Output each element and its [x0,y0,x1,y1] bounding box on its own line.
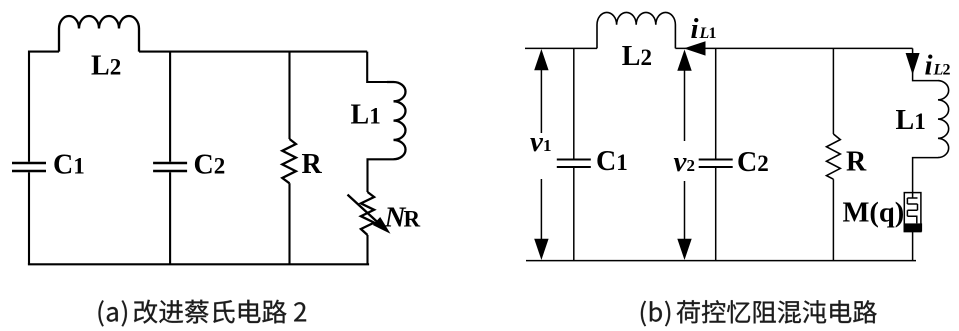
capacitor C2 (circuit a) [153,149,225,180]
wire: (a) C2 branch lower [169,172,171,264]
inductor L1 (circuit b) [896,81,949,158]
svg-text:C1: C1 [53,150,85,181]
wire: (b) right branch top with iL2 arrow [906,48,951,81]
capacitor C1 (circuit b) [557,146,628,177]
svg-text:1: 1 [709,25,717,42]
svg-text:R: R [302,149,323,180]
svg-text:i: i [691,13,699,45]
svg-text:2: 2 [943,62,951,79]
wire: (b) R branch upper [832,48,834,134]
svg-text:R: R [846,147,867,178]
node: v1 line upper with arrow [530,49,552,158]
svg-text:1: 1 [543,136,552,155]
svg-text:L1: L1 [896,105,926,136]
inductor L2 (circuit b) [597,12,675,71]
wire: (a) bottom wire [28,263,369,265]
wire: (b) C1 branch upper [573,48,575,158]
resistor R (circuit a) [282,139,322,183]
node: v1 line lower with arrow [534,179,548,260]
wire: (b) top wire left segment [525,47,597,49]
svg-text:L1: L1 [351,100,381,131]
caption (b) [641,300,877,326]
wire: (a) L1 to NR [368,159,394,192]
svg-text:2: 2 [687,156,696,175]
wire: (a) left branch lower [28,172,30,264]
wire: (b) top wire right segment [675,47,912,49]
wire: (a) right branch top corner [367,52,387,82]
inductor L1 (circuit a) [351,82,406,159]
svg-text:v: v [674,146,688,178]
svg-text:C2: C2 [737,147,769,178]
wire: (b) C1 branch lower [573,168,575,261]
svg-text:L2: L2 [91,50,121,81]
capacitor C1 (circuit a) [12,150,85,181]
nonlinear resistor NR (circuit a) [348,192,421,235]
svg-text:i: i [925,50,933,82]
node: v2 line lower with arrow [677,181,691,260]
wire: (b) C2 branch lower [715,168,717,261]
svg-text:L2: L2 [622,41,652,72]
svg-text:C1: C1 [596,146,628,177]
wire: (b) R branch lower [832,179,834,260]
wire: (a) top wire right segment [139,51,367,53]
svg-text:R: R [404,206,421,231]
wire: (a) C2 branch upper [169,52,171,162]
svg-text:M(q): M(q) [843,198,905,229]
inductor L2 (circuit a) [59,16,139,81]
memristor M(q) (circuit b) [843,193,923,232]
node: v2 line upper with arrow [674,50,696,179]
wire: (b) bottom wire [526,260,916,262]
svg-text:v: v [530,126,544,158]
wire: (b) C2 branch upper [715,48,717,158]
caption (a) [99,300,307,327]
capacitor C2 (circuit b) [699,147,769,178]
wire: (b) L1 to memristor [913,158,938,193]
svg-text:C2: C2 [194,149,226,180]
wire: (a) R branch lower [288,183,290,264]
wire: (a) R branch upper [288,52,290,139]
wire: (a) NR lower [366,235,368,264]
resistor R (circuit b) [827,134,868,179]
arrow iL1 on top wire [684,13,717,56]
wire: (a) left branch upper + top wire left segment [29,52,59,162]
wire: (b) memristor lower [912,232,914,261]
